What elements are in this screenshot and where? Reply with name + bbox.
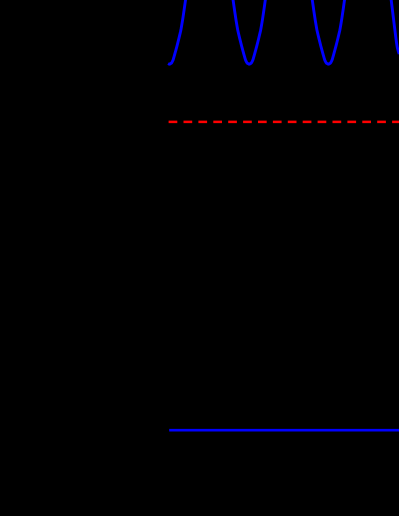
red dashed horizontal line (average level) (169, 121, 399, 124)
blue oscillating curve (top subplot) (168, 0, 399, 64)
blue solid horizontal line (bottom subplot) (169, 429, 399, 432)
